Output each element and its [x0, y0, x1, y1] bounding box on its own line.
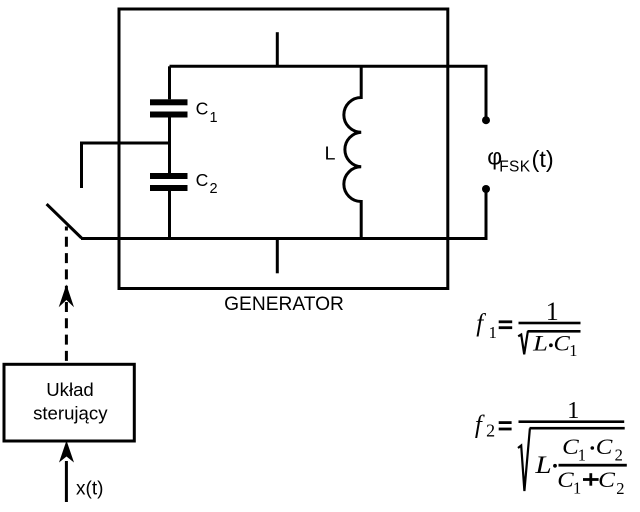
- svg-text:2: 2: [616, 479, 624, 498]
- svg-text:1: 1: [489, 323, 498, 342]
- svg-text:C: C: [598, 467, 616, 492]
- svg-text:(t): (t): [532, 146, 554, 172]
- svg-text:C: C: [554, 331, 571, 356]
- svg-text:L: L: [532, 331, 548, 356]
- svg-text:f: f: [475, 411, 485, 438]
- svg-text:L: L: [534, 452, 551, 479]
- svg-text:C: C: [196, 99, 209, 119]
- svg-text:1: 1: [567, 397, 579, 424]
- svg-text:FSK: FSK: [499, 159, 531, 176]
- svg-text:C: C: [196, 170, 209, 190]
- svg-text:1: 1: [569, 341, 577, 360]
- svg-text:sterujący: sterujący: [33, 403, 108, 424]
- svg-text:2: 2: [486, 421, 495, 441]
- svg-text:Układ: Układ: [46, 379, 94, 400]
- svg-text:2: 2: [210, 181, 218, 197]
- svg-text:x(t): x(t): [76, 478, 103, 499]
- svg-text:GENERATOR: GENERATOR: [224, 294, 344, 315]
- svg-text:L: L: [325, 142, 336, 163]
- svg-text:C: C: [596, 434, 614, 459]
- svg-text:2: 2: [615, 446, 623, 465]
- svg-text:1: 1: [210, 110, 218, 126]
- svg-text:1: 1: [578, 445, 586, 464]
- svg-text:1: 1: [573, 479, 581, 498]
- svg-text:f: f: [476, 310, 486, 337]
